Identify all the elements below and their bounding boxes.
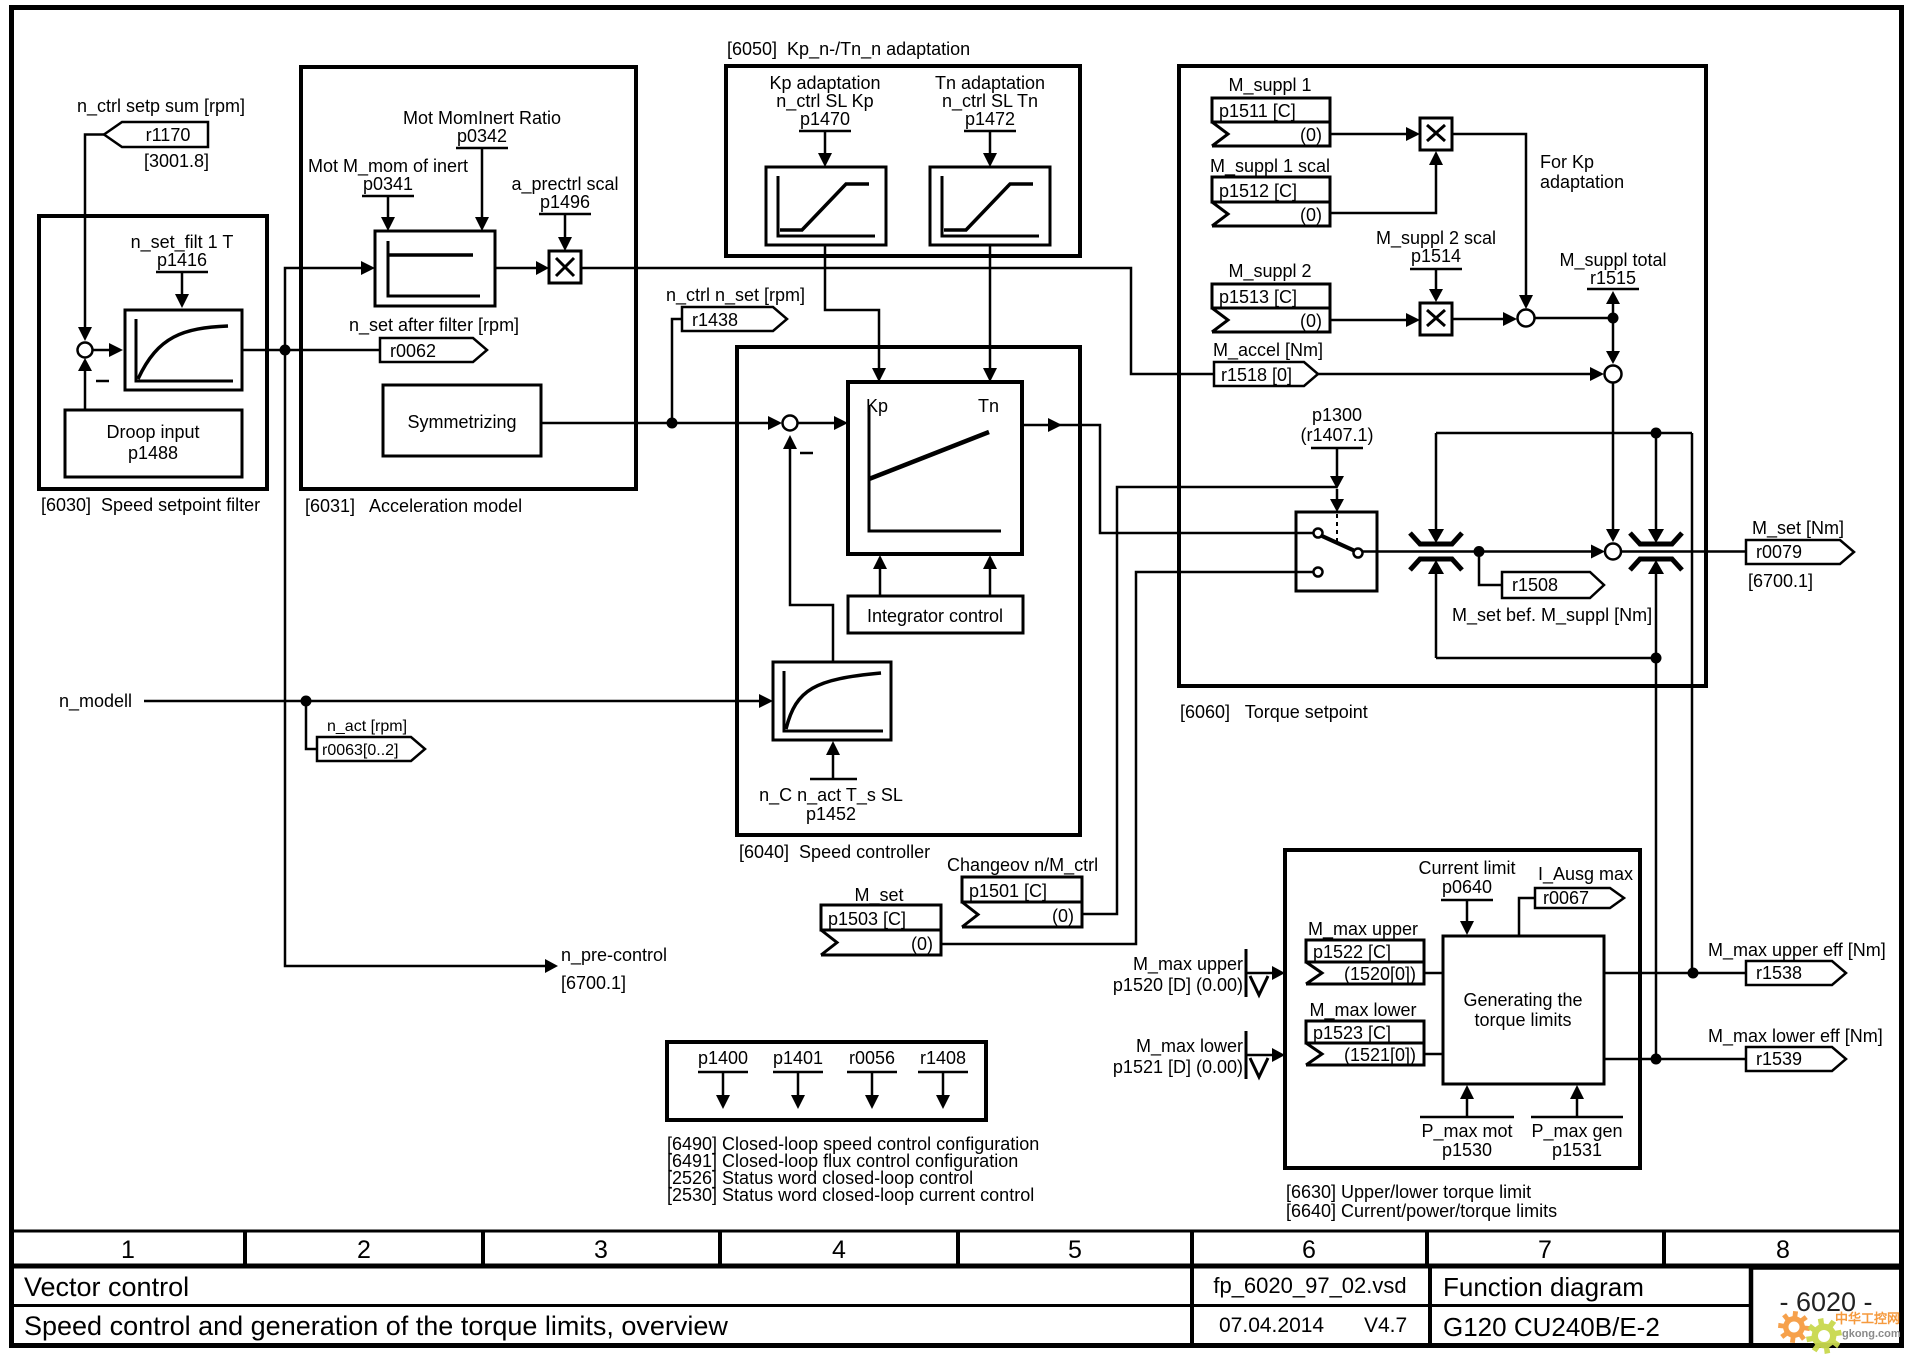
wire to n_pre-control bbox=[285, 350, 667, 993]
wire droop input to summing junction (minus) bbox=[78, 358, 109, 410]
block Symmetrizing bbox=[383, 385, 541, 456]
block 6040 Speed controller bbox=[737, 347, 1080, 835]
svg-text:Current limit: Current limit bbox=[1418, 858, 1515, 878]
parameter p0342 Mot MomInert Ratio bbox=[403, 108, 561, 231]
block 6031 Acceleration model bbox=[301, 67, 636, 489]
svg-text:M_set bef. M_suppl [Nm]: M_set bef. M_suppl [Nm] bbox=[1452, 605, 1652, 626]
wire p1511 to multiplier 1 bbox=[1330, 127, 1420, 141]
svg-text:p1523 [C]: p1523 [C] bbox=[1313, 1023, 1391, 1043]
svg-text:4: 4 bbox=[832, 1236, 846, 1264]
svg-text:Changeov n/M_ctrl: Changeov n/M_ctrl bbox=[947, 855, 1098, 876]
connector p1503 M_set (binector input) bbox=[821, 905, 941, 955]
limiter 1 torque setpoint bbox=[1410, 529, 1462, 574]
wire p1512 to multiplier 1 bbox=[1330, 151, 1443, 213]
junction upper eff node bbox=[1688, 968, 1699, 979]
svg-text:[6700.1]: [6700.1] bbox=[1748, 571, 1813, 591]
multiplier 2 M_suppl 2 scaling bbox=[1420, 303, 1452, 335]
wire p1523 to generating block bbox=[1424, 1053, 1443, 1056]
wire M_max upper eff output bbox=[1604, 972, 1746, 975]
wire Kp adaptation to controller bbox=[825, 245, 886, 382]
svg-text:r1170: r1170 bbox=[146, 125, 191, 145]
svg-text:r1515: r1515 bbox=[1590, 268, 1636, 288]
connector r1518 (output flag) bbox=[1214, 362, 1318, 386]
actual speed smoothing PT1 block bbox=[773, 662, 891, 740]
svg-text:p1452: p1452 bbox=[806, 804, 856, 824]
wire M_suppl total sum down to torque sum bbox=[1606, 383, 1620, 543]
svg-text:7: 7 bbox=[1538, 1236, 1552, 1264]
svg-text:p0342: p0342 bbox=[457, 126, 507, 146]
svg-text:[6640] Current/power/torque li: [6640] Current/power/torque limits bbox=[1286, 1201, 1557, 1221]
svg-text:r0056: r0056 bbox=[849, 1048, 895, 1068]
connector r0079 M_set (output flag) bbox=[1746, 518, 1854, 591]
svg-text:r1538: r1538 bbox=[1756, 963, 1802, 983]
svg-text:[6031] Acceleration model: [6031] Acceleration model bbox=[305, 496, 522, 516]
svg-text:adaptation: adaptation bbox=[1540, 172, 1624, 192]
Tn adaptation characteristic block bbox=[930, 167, 1050, 245]
svg-text:p1531: p1531 bbox=[1552, 1140, 1602, 1160]
svg-text:p1522 [C]: p1522 [C] bbox=[1313, 942, 1391, 962]
wire r1518 to summing junction bbox=[1318, 367, 1604, 381]
wire p1522 to generating block bbox=[1424, 972, 1443, 975]
wire acceleration precontrol torque to r1518 bbox=[581, 268, 1214, 374]
svg-text:2: 2 bbox=[357, 1236, 371, 1264]
svg-text:M_max upper: M_max upper bbox=[1308, 919, 1418, 940]
summing junction speed controller input bbox=[783, 416, 798, 431]
svg-text:Symmetrizing: Symmetrizing bbox=[407, 412, 516, 432]
parameter r0056 bbox=[847, 1048, 897, 1109]
svg-text:n_act [rpm]: n_act [rpm] bbox=[327, 718, 407, 735]
connector r1538 (output flag) bbox=[1746, 961, 1846, 985]
svg-text:fp_6020_97_02.vsd: fp_6020_97_02.vsd bbox=[1213, 1273, 1406, 1298]
svg-text:n_C n_act T_s SL: n_C n_act T_s SL bbox=[759, 785, 903, 806]
svg-text:M_accel [Nm]: M_accel [Nm] bbox=[1213, 340, 1323, 361]
parameter p1531 P_max gen bbox=[1531, 1085, 1623, 1160]
reference list bbox=[667, 1134, 1039, 1205]
wire n_act feedback to summing junction (minus) bbox=[783, 435, 833, 662]
block Droop input p1488 bbox=[65, 410, 242, 477]
parameter p1452 n_C n_act T_s SL bbox=[759, 741, 903, 824]
svg-text:P_max gen: P_max gen bbox=[1531, 1121, 1622, 1142]
wire r0067 tap bbox=[1519, 898, 1535, 936]
wire integrator control to controller (left) bbox=[873, 555, 887, 596]
svg-text:r1508: r1508 bbox=[1512, 575, 1558, 595]
svg-text:(0): (0) bbox=[1052, 906, 1074, 926]
svg-text:p1514: p1514 bbox=[1411, 246, 1461, 266]
wire multiplier 1 to summing junction bbox=[1452, 134, 1533, 309]
block 6060 Torque setpoint bbox=[1179, 66, 1706, 686]
wire r1170 to summing point bbox=[85, 135, 104, 328]
svg-text:p1501 [C]: p1501 [C] bbox=[969, 881, 1047, 901]
connector p1522 (binector input) bbox=[1306, 940, 1424, 984]
svg-text:r1438: r1438 bbox=[692, 310, 738, 330]
wire switch output to summing junction bbox=[1363, 545, 1606, 559]
connector r0062 (output flag) bbox=[380, 338, 487, 362]
svg-text:P_max mot: P_max mot bbox=[1421, 1121, 1512, 1142]
wire integrator control to controller (right) bbox=[983, 555, 997, 596]
connector p1512 (binector input) bbox=[1212, 177, 1330, 226]
connector p1511 (binector input) bbox=[1212, 98, 1330, 146]
svg-text:M_max upper: M_max upper bbox=[1133, 954, 1243, 975]
wire n_modell to PT1 bbox=[59, 691, 773, 712]
svg-text:p1300: p1300 bbox=[1312, 405, 1362, 425]
svg-text:p1496: p1496 bbox=[540, 192, 590, 212]
wire filter output bbox=[242, 349, 380, 352]
svg-text:n_set after filter [rpm]: n_set after filter [rpm] bbox=[349, 315, 519, 336]
parameter p1530 P_max mot bbox=[1420, 1085, 1514, 1160]
parameter p0341 Mot M_mom of inert bbox=[308, 156, 468, 231]
multiplier a_prectrl bbox=[549, 251, 581, 283]
Kp adaptation characteristic block bbox=[766, 167, 886, 245]
parameter p1496 a_prectrl scal bbox=[511, 174, 618, 251]
multiplier 1 M_suppl 1 scaling bbox=[1420, 118, 1452, 150]
svg-text:p1520 [D] (0.00): p1520 [D] (0.00) bbox=[1113, 975, 1243, 995]
block configuration parameters p1400/p1401/r0056/r1408 bbox=[667, 1042, 986, 1120]
junction n_act tap node bbox=[301, 696, 312, 707]
acceleration precontrol block (derivative) bbox=[375, 231, 495, 306]
parameter p1416 n_set_filt 1 T bbox=[131, 232, 234, 308]
svg-text:M_suppl 1 scal: M_suppl 1 scal bbox=[1210, 156, 1330, 177]
svg-text:r0067: r0067 bbox=[1543, 888, 1589, 908]
svg-text:p0341: p0341 bbox=[363, 174, 413, 194]
wire symmetrizing output to speed controller bbox=[541, 422, 768, 425]
block 6630 torque limits bbox=[1285, 850, 1640, 1168]
svg-text:[2530] Status word closed-loop: [2530] Status word closed-loop current c… bbox=[667, 1185, 1034, 1205]
parameter p1400 bbox=[698, 1048, 748, 1109]
summing junction M_set + M_suppl bbox=[1605, 544, 1621, 560]
watermark gkong logo bbox=[1778, 1311, 1901, 1354]
wire to r0079 bbox=[1621, 550, 1746, 553]
wire upper torque limit feed bbox=[1436, 433, 1692, 973]
svg-text:p0640: p0640 bbox=[1442, 877, 1492, 897]
connector r1539 (output flag) bbox=[1746, 1047, 1846, 1071]
junction filter output node bbox=[280, 345, 291, 356]
svg-text:Droop input: Droop input bbox=[106, 422, 199, 442]
parameter r1408 bbox=[918, 1048, 968, 1109]
svg-text:M_max lower eff [Nm]: M_max lower eff [Nm] bbox=[1708, 1026, 1883, 1047]
wire controller output to changeover switch bbox=[1022, 418, 1313, 533]
svg-text:[6700.1]: [6700.1] bbox=[561, 973, 626, 993]
wire derivative to multiplier bbox=[495, 267, 536, 270]
svg-text:p1488: p1488 bbox=[128, 443, 178, 463]
svg-text:中华工控网: 中华工控网 bbox=[1835, 1311, 1900, 1326]
wire r1438 tap bbox=[672, 319, 682, 423]
parameter p0640 Current limit bbox=[1418, 858, 1515, 935]
svg-text:(0): (0) bbox=[1300, 205, 1322, 225]
svg-text:r0063[0..2]: r0063[0..2] bbox=[322, 742, 399, 759]
svg-text:(0): (0) bbox=[1300, 311, 1322, 331]
svg-text:(1520[0]): (1520[0]) bbox=[1344, 964, 1416, 984]
svg-text:Generating the: Generating the bbox=[1463, 990, 1582, 1010]
svg-text:For Kp: For Kp bbox=[1540, 152, 1594, 172]
connector p1501 changeover (binector input) bbox=[962, 877, 1082, 927]
svg-text:5: 5 bbox=[1068, 1236, 1082, 1264]
svg-text:M_max lower: M_max lower bbox=[1136, 1036, 1243, 1057]
svg-text:Integrator control: Integrator control bbox=[867, 606, 1003, 626]
svg-text:p1416: p1416 bbox=[157, 250, 207, 270]
svg-text:V4.7: V4.7 bbox=[1364, 1314, 1407, 1337]
svg-text:r0062: r0062 bbox=[390, 341, 436, 361]
svg-text:r1408: r1408 bbox=[920, 1048, 966, 1068]
junction M_suppl total node bbox=[1608, 313, 1619, 324]
svg-text:r1518 [0]: r1518 [0] bbox=[1221, 365, 1292, 385]
connector from 6620 M_max upper bbox=[1113, 949, 1285, 997]
svg-text:n_ctrl setp sum [rpm]: n_ctrl setp sum [rpm] bbox=[77, 96, 245, 117]
wire r1508 tap bbox=[1479, 552, 1502, 586]
wire M_max lower eff output bbox=[1604, 1058, 1746, 1061]
svg-text:M_set [Nm]: M_set [Nm] bbox=[1752, 518, 1844, 539]
switch n/M control changeover bbox=[1296, 512, 1377, 591]
svg-text:[6060] Torque setpoint: [6060] Torque setpoint bbox=[1180, 702, 1368, 722]
svg-text:G120 CU240B/E-2: G120 CU240B/E-2 bbox=[1443, 1312, 1660, 1342]
svg-text:r1539: r1539 bbox=[1756, 1049, 1802, 1069]
block Integrator control bbox=[848, 596, 1023, 633]
wire r0063 tap bbox=[306, 701, 317, 749]
svg-text:I_Ausg max: I_Ausg max bbox=[1538, 864, 1633, 885]
label For Kp adaptation bbox=[1540, 152, 1624, 192]
wire summing junction to filter bbox=[93, 349, 110, 352]
svg-text:M_suppl 1: M_suppl 1 bbox=[1228, 75, 1311, 96]
svg-text:Vector control: Vector control bbox=[24, 1272, 189, 1302]
label block 6630/6640 bbox=[1286, 1182, 1557, 1221]
svg-text:p1472: p1472 bbox=[965, 109, 1015, 129]
junction lower limit node bbox=[1651, 653, 1662, 664]
svg-text:Tn adaptation: Tn adaptation bbox=[935, 73, 1045, 93]
wire p1513 to multiplier 2 bbox=[1330, 313, 1420, 327]
connector p1523 (binector input) bbox=[1306, 1021, 1424, 1065]
svg-text:[6040] Speed controller: [6040] Speed controller bbox=[739, 842, 930, 862]
svg-text:n_modell: n_modell bbox=[59, 691, 132, 712]
svg-text:6: 6 bbox=[1302, 1236, 1316, 1264]
wire setpoint to acceleration model bbox=[285, 268, 361, 350]
wire Tn adaptation to controller bbox=[983, 245, 997, 382]
title block table bbox=[9, 1231, 1904, 1346]
svg-text:p1521 [D] (0.00): p1521 [D] (0.00) bbox=[1113, 1057, 1243, 1077]
connector r0067 (output flag) bbox=[1535, 888, 1624, 908]
parameter p1472 Tn adaptation bbox=[935, 73, 1045, 167]
junction r1438 tap node bbox=[667, 418, 678, 429]
svg-text:p1400: p1400 bbox=[698, 1048, 748, 1068]
connector from 6620 M_max lower bbox=[1113, 1031, 1285, 1079]
svg-text:p1401: p1401 bbox=[773, 1048, 823, 1068]
junction upper limit node bbox=[1651, 428, 1662, 439]
svg-text:M_suppl 2: M_suppl 2 bbox=[1228, 261, 1311, 282]
svg-text:p1511 [C]: p1511 [C] bbox=[1219, 101, 1296, 121]
wire p1501 to switch control bbox=[1082, 487, 1337, 914]
svg-text:gkong.com: gkong.com bbox=[1842, 1328, 1901, 1340]
svg-text:[6030] Speed setpoint filter: [6030] Speed setpoint filter bbox=[41, 495, 260, 515]
svg-text:(0): (0) bbox=[1300, 125, 1322, 145]
block 6050 Kp_n/Tn_n adaptation bbox=[726, 66, 1080, 256]
svg-text:07.04.2014: 07.04.2014 bbox=[1219, 1314, 1324, 1337]
summing junction M_suppl + M_accel bbox=[1605, 366, 1622, 383]
svg-text:Tn: Tn bbox=[978, 396, 999, 416]
svg-text:8: 8 bbox=[1776, 1236, 1790, 1264]
connector r0063 (output flag) bbox=[317, 737, 425, 761]
connector p1513 (binector input) bbox=[1212, 284, 1330, 332]
setpoint filter PT1 block bbox=[125, 310, 242, 390]
svg-text:M_set: M_set bbox=[854, 885, 903, 906]
wire summing junction to PI controller bbox=[798, 416, 849, 430]
wire lower torque limit feed bbox=[1436, 574, 1656, 1059]
svg-text:Function diagram: Function diagram bbox=[1443, 1272, 1644, 1302]
connector r1170 (input flag) bbox=[104, 122, 209, 171]
wire M_suppl total to M_accel sum bbox=[1606, 318, 1620, 364]
parameter p1514 M_suppl 2 scal bbox=[1376, 228, 1496, 302]
svg-text:(r1407.1): (r1407.1) bbox=[1300, 425, 1373, 445]
svg-text:[3001.8]: [3001.8] bbox=[144, 151, 209, 171]
svg-text:(1521[0]): (1521[0]) bbox=[1344, 1045, 1416, 1065]
svg-text:n_ctrl n_set [rpm]: n_ctrl n_set [rpm] bbox=[666, 285, 805, 306]
svg-text:3: 3 bbox=[594, 1236, 608, 1264]
svg-text:torque limits: torque limits bbox=[1474, 1010, 1571, 1030]
svg-text:Speed control and generation o: Speed control and generation of the torq… bbox=[24, 1311, 728, 1341]
block 6030 Speed setpoint filter bbox=[39, 216, 267, 489]
svg-text:M_max lower: M_max lower bbox=[1309, 1000, 1416, 1021]
wire multiplier 2 to summing junction bbox=[1452, 312, 1517, 326]
svg-text:p1470: p1470 bbox=[800, 109, 850, 129]
summing junction speed setpoint / droop bbox=[78, 343, 93, 358]
block Generating the torque limits bbox=[1443, 936, 1604, 1084]
svg-text:[6630] Upper/lower torque limi: [6630] Upper/lower torque limit bbox=[1286, 1182, 1531, 1202]
connector r1515 M_suppl total bbox=[1559, 250, 1666, 318]
svg-text:[6050] Kp_n-/Tn_n adaptation: [6050] Kp_n-/Tn_n adaptation bbox=[727, 39, 970, 60]
svg-text:Mot MomInert Ratio: Mot MomInert Ratio bbox=[403, 108, 561, 128]
parameter p1401 bbox=[773, 1048, 823, 1109]
svg-text:Kp adaptation: Kp adaptation bbox=[769, 73, 880, 93]
svg-text:p1513 [C]: p1513 [C] bbox=[1219, 287, 1297, 307]
svg-text:r0079: r0079 bbox=[1756, 542, 1802, 562]
svg-text:p1530: p1530 bbox=[1442, 1140, 1492, 1160]
svg-text:(0): (0) bbox=[911, 934, 933, 954]
connector r1508 (output flag) bbox=[1452, 572, 1652, 626]
junction lower eff node bbox=[1651, 1054, 1662, 1065]
svg-text:1: 1 bbox=[121, 1236, 135, 1264]
limiter 2 final torque setpoint bbox=[1630, 529, 1682, 574]
parameter p1470 Kp adaptation bbox=[769, 73, 880, 167]
wire p1503 to switch lower contact bbox=[941, 572, 1313, 944]
PI controller Kp/Tn block bbox=[848, 382, 1022, 554]
svg-text:M_max upper eff [Nm]: M_max upper eff [Nm] bbox=[1708, 940, 1886, 961]
wire M_suppl sum to node bbox=[1535, 317, 1614, 320]
summing junction M_suppl bbox=[1518, 310, 1535, 327]
junction r1508 tap node bbox=[1474, 546, 1485, 557]
svg-text:p1503 [C]: p1503 [C] bbox=[828, 909, 906, 929]
svg-text:n_pre-control: n_pre-control bbox=[561, 945, 667, 966]
parameter p1300 (r1407.1) switch control bbox=[1300, 405, 1373, 546]
connector r1438 (output flag) bbox=[682, 307, 787, 331]
svg-text:p1512 [C]: p1512 [C] bbox=[1219, 181, 1297, 201]
